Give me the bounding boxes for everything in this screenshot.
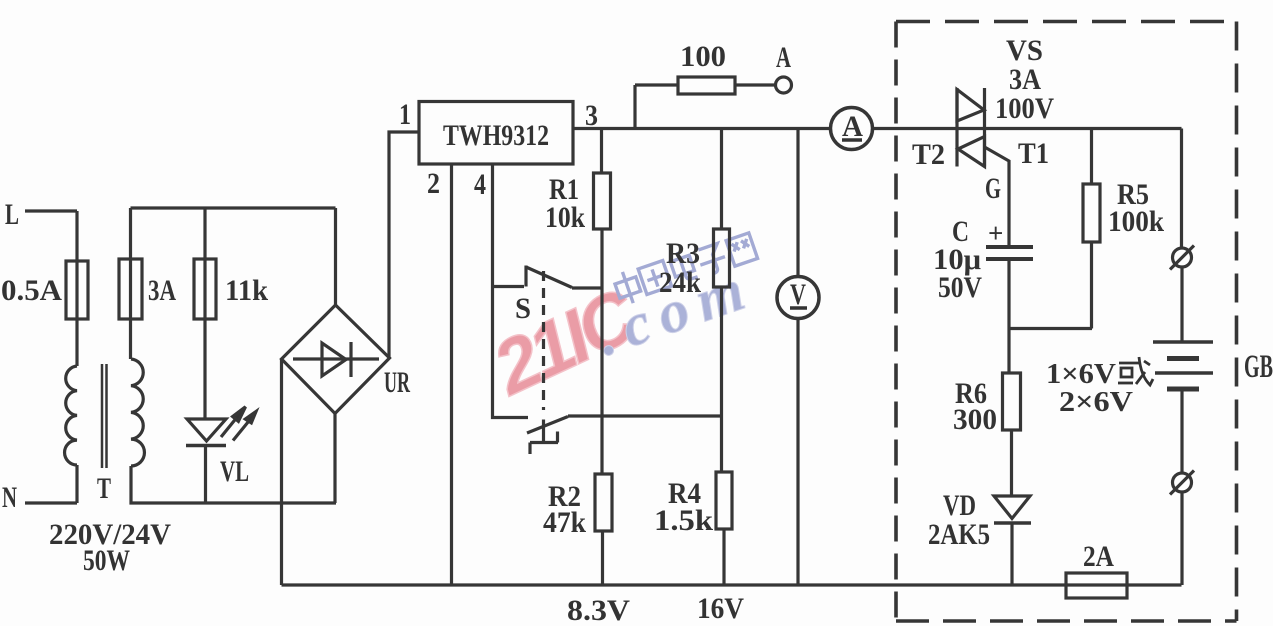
transformer core <box>101 364 104 468</box>
wire gate <box>985 147 1010 245</box>
子 <box>695 242 728 276</box>
resistor R5 <box>1083 184 1100 242</box>
wire bridge top riser <box>334 208 337 305</box>
svg-text:T1: T1 <box>1018 137 1049 170</box>
svg-text:V: V <box>790 278 806 311</box>
svg-text:1: 1 <box>399 98 411 131</box>
dashed enclosure <box>896 22 1237 622</box>
wire bridge left to ground rail <box>280 359 283 585</box>
voltmeter PV <box>777 277 819 319</box>
voltmeter PV riser <box>796 129 799 277</box>
node N lead <box>25 501 77 504</box>
transformer T secondary winding <box>131 359 144 466</box>
中 <box>612 268 644 306</box>
svg-text:2×6V: 2×6V <box>1059 387 1133 418</box>
resistor 100 lead riser <box>633 85 636 129</box>
bridge rectifier UR <box>282 305 390 414</box>
wire LED to bottom <box>204 446 207 504</box>
svg-text:3: 3 <box>585 99 598 132</box>
terminal bottom <box>1173 473 1192 492</box>
wire PV to rail <box>796 319 799 586</box>
svg-text:100k: 100k <box>1108 205 1164 238</box>
svg-text:100V: 100V <box>995 92 1054 125</box>
svg-text:300: 300 <box>953 403 997 436</box>
svg-text:S: S <box>515 292 531 325</box>
网 <box>726 233 757 266</box>
wire R5 riser <box>1090 129 1093 185</box>
svg-text:T2: T2 <box>912 138 945 171</box>
ammeter PA <box>831 108 873 150</box>
switch S upper <box>492 285 525 288</box>
wire VD to rail <box>1010 523 1013 585</box>
character huo <box>1118 357 1153 385</box>
terminal top <box>1173 248 1192 267</box>
switch gang dashed link <box>542 271 545 410</box>
wire fuse 3A to secondary <box>129 319 132 359</box>
svg-text:UR: UR <box>384 366 410 399</box>
capacitor C <box>986 245 1033 249</box>
ground rail bottom <box>282 583 1182 586</box>
resistor R4 <box>716 472 732 529</box>
svg-text:11k: 11k <box>225 274 268 307</box>
resistor R6 <box>1003 373 1021 430</box>
terminal A <box>776 77 792 93</box>
svg-text:3A: 3A <box>148 274 176 307</box>
resistor 11k <box>203 259 206 319</box>
svg-text:2: 2 <box>427 167 440 200</box>
wire R2 to rail <box>601 531 604 585</box>
svg-text:16V: 16V <box>697 592 744 625</box>
wire pin2 <box>450 164 453 585</box>
wire R5 bottom <box>1090 242 1093 329</box>
svg-text:1.5k: 1.5k <box>654 504 713 537</box>
diode VD <box>994 496 1030 519</box>
resistor R1 <box>594 173 611 229</box>
wire primary to N <box>75 465 78 503</box>
fuse 0.5A <box>75 261 78 319</box>
resistor 100 <box>678 77 735 94</box>
svg-text:TWH9312: TWH9312 <box>443 119 549 152</box>
svg-text:VL: VL <box>220 455 249 488</box>
svg-text:0.5A: 0.5A <box>1 274 62 307</box>
wire R4 to rail <box>722 529 725 585</box>
svg-text:2A: 2A <box>1083 540 1114 573</box>
wire secondary top to fuse 3A <box>129 208 132 259</box>
battery GB <box>1153 340 1213 344</box>
wire bridge right to pin1 <box>389 132 419 358</box>
wire bridge bottom to AC <box>333 414 336 504</box>
svg-text:4: 4 <box>474 168 486 201</box>
fuse 3A <box>129 259 132 319</box>
LED VL <box>187 419 226 441</box>
svg-text:10k: 10k <box>545 201 585 234</box>
wire battery branch <box>1180 129 1183 248</box>
resistor 11k lead <box>203 208 206 259</box>
wire cap to R6 <box>1009 261 1092 373</box>
svg-text:G: G <box>985 172 1001 205</box>
resistor R3 lead <box>720 129 723 230</box>
svg-text:8.3V: 8.3V <box>567 594 630 626</box>
wire L to fuse <box>75 211 78 261</box>
transformer T primary winding <box>65 366 77 465</box>
wire R6 to VD <box>1010 430 1013 496</box>
wire rail to triac <box>873 127 1182 130</box>
wire top AC rail <box>131 206 336 209</box>
wire secondary bottom <box>131 466 336 503</box>
svg-text:T: T <box>97 472 111 505</box>
watermark 21IC.com 中国电子网 <box>479 233 762 412</box>
svg-text:50V: 50V <box>938 271 982 304</box>
wire 11k to LED <box>203 319 206 419</box>
wire pin4 <box>493 164 529 418</box>
svg-text:+: + <box>988 218 1003 248</box>
电 <box>668 248 698 283</box>
switch S lower <box>527 417 568 434</box>
wire fuse to primary <box>75 319 78 366</box>
svg-text:GB: GB <box>1244 349 1273 385</box>
fuse 2A <box>1066 573 1127 598</box>
国 <box>638 261 671 295</box>
svg-text:2AK5: 2AK5 <box>928 518 990 551</box>
svg-text:A: A <box>842 110 863 143</box>
wire R3 to R4 <box>720 287 723 472</box>
resistor R3 <box>714 229 730 287</box>
wire pin3 rail <box>573 127 831 130</box>
svg-text:100: 100 <box>680 40 726 73</box>
triac VS <box>955 88 958 167</box>
svg-text:24k: 24k <box>659 266 701 299</box>
node L lead <box>25 209 77 212</box>
resistor R2 <box>595 474 612 531</box>
IC U1 TWH9312 <box>419 102 573 165</box>
svg-text:L: L <box>5 198 19 231</box>
svg-text:1×6V: 1×6V <box>1046 359 1116 390</box>
svg-text:N: N <box>2 481 17 514</box>
svg-text:A: A <box>776 41 791 74</box>
wire R1 to R2 <box>600 229 603 474</box>
svg-text:50W: 50W <box>83 544 130 577</box>
resistor R1 lead <box>600 129 603 174</box>
svg-text:47k: 47k <box>543 506 586 539</box>
